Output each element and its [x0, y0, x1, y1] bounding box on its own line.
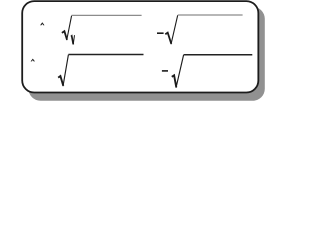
row 2 hat accent (caret): [31, 59, 35, 62]
row 1 vinculum 1 (gray overbar): [72, 14, 142, 16]
row 2 minus sign: [162, 70, 168, 72]
row 1 minus sign: [157, 32, 164, 34]
row 2 vinculum 2 (black overbar): [184, 54, 253, 56]
row 2 vinculum 1 (black overbar): [68, 54, 143, 56]
drop shadow of rounded box: [29, 7, 265, 101]
row 1 small nested radical tick: [71, 36, 73, 45]
rounded box frame: [22, 1, 258, 92]
row 2 radical sign 2: [172, 75, 177, 87]
row 1 radical sign 1: [62, 31, 67, 40]
row 1 hat accent (caret): [40, 22, 44, 25]
row 1 radical sign 2: [165, 33, 171, 44]
row 1 vinculum 2 (gray overbar): [178, 14, 243, 16]
row 2 radical sign 1: [58, 76, 63, 86]
